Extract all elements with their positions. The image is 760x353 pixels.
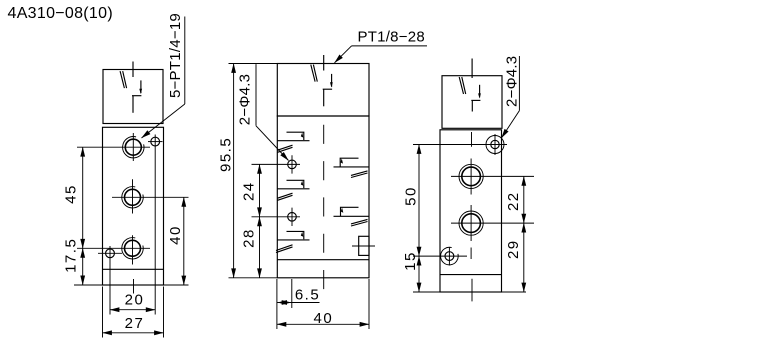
solenoid symbol pin (right box): [479, 85, 481, 98]
valve body (left view): [103, 127, 164, 285]
inner base line (left view): [103, 268, 164, 270]
svg-text:95.5: 95.5: [218, 137, 235, 172]
solenoid symbol pin (middle box): [331, 74, 333, 87]
port circle D2 (right view): [462, 214, 481, 233]
C3 centerlines: [77, 247, 150, 249]
mounting hole top-right (left view): [151, 137, 160, 146]
dimension 29 (right view): [523, 223, 525, 292]
inner base line (middle view): [277, 259, 369, 261]
solenoid box (left view): [103, 70, 163, 124]
mounting hole bottom (right view): [445, 252, 454, 261]
svg-text:20: 20: [125, 292, 145, 309]
svg-text:28: 28: [240, 228, 257, 248]
antenna centerline (middle box): [323, 55, 325, 71]
dimension 15 (right view): [418, 256, 420, 292]
C1 centerlines: [77, 146, 150, 148]
port P2 left (middle view): [277, 188, 309, 190]
svg-text:4A310−08(10): 4A310−08(10): [8, 5, 113, 22]
port P4 right (middle view): [334, 166, 370, 168]
port P5 right (middle view): [334, 215, 370, 217]
solenoid symbol stem (right box): [471, 100, 473, 111]
solenoid symbol stem (left box): [132, 96, 134, 113]
svg-text:17.5: 17.5: [62, 238, 79, 273]
svg-text:15: 15: [402, 251, 419, 271]
hole A (middle view): [288, 160, 297, 169]
dimension 6.5 (middle view): [276, 279, 278, 329]
bottom edge extensions (right view): [413, 291, 440, 293]
dimension 28 (middle view): [259, 217, 261, 278]
C2 centerlines: [112, 196, 189, 198]
svg-text:5−PT1/4−19: 5−PT1/4−19: [167, 13, 184, 98]
port P3 left (middle view): [277, 239, 309, 241]
solenoid box (middle view): [277, 64, 369, 117]
solenoid symbol stem (middle box): [323, 89, 325, 106]
antenna centerline (right box): [471, 59, 473, 79]
valve body (middle view): [277, 116, 369, 278]
svg-text:PT1/8−28: PT1/8−28: [358, 29, 425, 46]
bottom edge extension line (left view): [74, 284, 103, 286]
leader arrow to hole A (middle view): [256, 126, 289, 161]
mounting hole bottom-left (left view): [106, 249, 115, 258]
svg-text:50: 50: [403, 186, 420, 206]
dimension 24 (middle view): [259, 164, 261, 216]
leader arrow to top hole (right view): [501, 111, 519, 138]
dimension 17.5 (left view): [82, 248, 84, 285]
dimension 22 (right view): [523, 176, 525, 223]
svg-text:22: 22: [505, 191, 522, 211]
port circle D1 (right view): [462, 167, 481, 186]
dimension 95.5 (middle view): [229, 63, 278, 65]
port circle C1 (left view): [125, 139, 141, 155]
dimension 40 (middle view): [368, 279, 370, 329]
svg-text:27: 27: [125, 315, 145, 332]
mounting hole top (right view): [491, 140, 499, 148]
port P1 left (middle view): [277, 140, 309, 142]
valve body (right view): [440, 130, 502, 292]
dimension 20 (left view): [110, 309, 155, 311]
svg-text:45: 45: [63, 184, 80, 204]
svg-text:29: 29: [505, 239, 522, 259]
solenoid symbol step (middle box): [323, 88, 332, 90]
port circle C2 (left view): [125, 189, 141, 205]
svg-text:6.5: 6.5: [295, 287, 320, 304]
solenoid symbol step (left box): [132, 95, 141, 97]
svg-text:24: 24: [240, 181, 257, 201]
bottom port centerline tick (left view): [133, 279, 135, 294]
centerline dash (right view): [471, 132, 473, 147]
svg-text:2−Φ4.3: 2−Φ4.3: [236, 74, 253, 125]
leader arrow to box top (middle view): [335, 46, 352, 63]
leader arrow to C1: [142, 104, 185, 138]
svg-text:40: 40: [314, 310, 334, 327]
antenna centerline (left box): [132, 62, 134, 78]
hole B (middle view): [288, 213, 297, 222]
dimension 27 (left view): [103, 332, 164, 334]
side port rectangle (middle view): [359, 236, 369, 255]
dashed centerline (middle view): [323, 125, 325, 289]
solenoid symbol slashes (left box): [120, 71, 124, 88]
solenoid box (right view): [442, 76, 502, 129]
port circle C3 (left view): [125, 240, 141, 256]
solenoid symbol slashes (middle box): [311, 65, 315, 82]
solenoid symbol pin (left box): [140, 80, 142, 93]
svg-text:40: 40: [167, 225, 184, 245]
svg-text:2−Φ4.3: 2−Φ4.3: [504, 56, 521, 107]
solenoid symbol slashes (right box): [459, 77, 463, 94]
inner base line (right view): [440, 274, 502, 276]
bottom port centerline tick (right view): [471, 279, 473, 302]
dimension 45 (left view): [82, 147, 84, 248]
dimension 40 (left view): [183, 197, 185, 285]
solenoid symbol step (right box): [471, 99, 480, 101]
dimension 50 (right view): [418, 145, 420, 257]
